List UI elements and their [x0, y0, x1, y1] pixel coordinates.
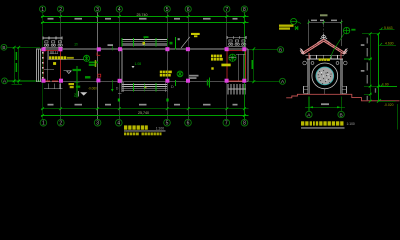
top chain tick slashes — [41, 15, 246, 24]
grey micro text at stub 3-4 — [108, 44, 114, 46]
svg-text:-0.020: -0.020 — [384, 103, 394, 107]
sparrow brace scroll right — [336, 61, 347, 65]
left vertical dimension lines — [12, 47, 23, 85]
level marker -0.020 — [378, 99, 396, 107]
long green drop line at x 77 — [76, 66, 78, 98]
bottom grid bubble 7 — [223, 119, 230, 126]
eave tip right — [343, 49, 347, 55]
right plan dim ticks — [252, 47, 255, 83]
left grid bubble A — [2, 78, 8, 84]
left axis line A — [7, 80, 40, 82]
grid axis 8 vertical green — [243, 13, 245, 120]
leader text flower beam (Y1) — [49, 56, 74, 65]
plan left end post dots — [42, 52, 44, 79]
level marker 1.00 — [379, 83, 397, 87]
svg-text:B: B — [339, 112, 342, 118]
column C bottom 8 — [242, 79, 246, 83]
column C bottom 6 — [186, 79, 190, 83]
leader text lower middle (Y4) — [160, 71, 172, 77]
small green index marks below walkway — [118, 99, 169, 102]
small dim number texts beside ticks — [361, 44, 365, 71]
bottom grid bubble 8 — [241, 119, 248, 126]
bottom grid bubble 3 — [94, 119, 101, 126]
white inner post bay 1-2 — [46, 51, 48, 82]
right dim connectors — [362, 34, 380, 94]
level marker 4.630 — [378, 41, 396, 45]
hatch light speckle — [320, 72, 330, 81]
bottom dimension chain lines — [41, 109, 249, 116]
red beam bay 7-8 bottom — [227, 80, 246, 82]
section top dimension line — [309, 21, 342, 23]
level marker in walkway (Y2) — [132, 62, 142, 68]
white landing line in wing — [44, 68, 54, 70]
walkway bottom yellow mark — [144, 86, 147, 88]
grey micro text at stub 5-6 — [178, 38, 180, 40]
stool furniture set bay 1-2 — [43, 37, 63, 48]
svg-text:D: D — [116, 86, 119, 90]
moon circle outer — [312, 63, 338, 89]
bottom chain tick slashes — [41, 107, 246, 117]
green note above triangle — [73, 69, 82, 71]
bottom grid bubble 5 — [164, 119, 171, 126]
centre walkway slat ticks top — [122, 38, 167, 47]
svg-text:25,740: 25,740 — [137, 13, 148, 17]
yellow note above column 6 — [191, 33, 200, 37]
right axis line A — [249, 80, 280, 82]
column C top 6 — [186, 47, 190, 51]
section bottom dim arrows — [309, 106, 341, 108]
grey note text right of callout — [189, 75, 199, 79]
green note row lower — [85, 76, 90, 78]
green stub mid bay 5-6 — [175, 37, 177, 49]
level marker 5.643 — [379, 26, 395, 30]
rafter posts red — [309, 53, 341, 59]
moon circle hatch disc — [316, 67, 334, 85]
svg-text:B: B — [279, 48, 282, 53]
svg-text:2: 2 — [59, 7, 62, 13]
right elevation dim vertical 1 — [369, 34, 371, 101]
column C top 8 — [242, 47, 246, 51]
svg-text:B: B — [2, 45, 5, 50]
section bubble A — [306, 111, 312, 118]
roof right rafter ticks — [328, 43, 339, 51]
plan right end edge — [247, 49, 249, 82]
left grid bubble B — [1, 44, 7, 50]
svg-text:3: 3 — [96, 7, 99, 13]
svg-text:2: 2 — [59, 121, 62, 127]
svg-text:1.00: 1.00 — [382, 83, 389, 87]
rotated green dim text near grid 3 — [95, 60, 97, 67]
grid bubble 1 — [40, 6, 46, 13]
plan left end steps — [36, 49, 40, 82]
red column tag bottom 3 — [98, 74, 101, 77]
balustrade right — [342, 86, 347, 93]
sparrow brace scroll left — [303, 61, 314, 65]
roof left rafter ticks — [309, 43, 320, 51]
red beam bay 1-2 top — [41, 50, 61, 52]
column C top 2 — [58, 47, 62, 51]
svg-text:4: 4 — [117, 121, 120, 127]
section bottom dim line — [305, 97, 345, 112]
right grid bubble A — [280, 78, 286, 84]
section top dim stems — [309, 20, 342, 26]
left axis line B — [7, 46, 40, 48]
right dim ticks — [369, 32, 380, 102]
left vertical dim micro texts — [16, 52, 18, 72]
right end interior rails — [236, 54, 246, 81]
centre walkway slat ticks bottom — [122, 83, 167, 92]
svg-text:2I: 2I — [74, 41, 77, 46]
right plan dim micro text — [252, 60, 254, 69]
section top dim micro texts — [311, 20, 337, 22]
column C bottom 3 — [96, 78, 100, 82]
green micro text right of roof callout — [351, 29, 355, 31]
bench lattice bottom bay 7-8 — [228, 84, 246, 95]
section title text — [301, 121, 355, 128]
bottom chain micro dimension texts — [48, 104, 238, 106]
section bubble B — [338, 111, 344, 118]
section bottom dim text — [321, 103, 329, 105]
top chain micro dimension texts — [48, 18, 238, 20]
column C top 4 — [118, 47, 122, 51]
detail callout circle (G2) — [229, 54, 236, 61]
right vertical dimension line of plan — [253, 49, 255, 82]
svg-text:1:100: 1:100 — [156, 126, 164, 130]
hatch speckle — [318, 70, 332, 84]
svg-text:5: 5 — [166, 121, 169, 127]
plan bottom chord line — [36, 81, 248, 83]
left bay interior lattice — [50, 51, 59, 54]
right grid bubble B — [278, 47, 284, 53]
column C bottom 1 — [42, 79, 46, 83]
svg-text:6: 6 — [187, 121, 190, 127]
svg-text:7: 7 — [225, 121, 228, 127]
leader diagonal to column 6 — [181, 37, 190, 48]
section column right — [340, 59, 342, 94]
green micro note right of G1 — [89, 62, 98, 66]
leader text pair right of centre (Y3) — [211, 55, 231, 70]
top dimension chain lines — [41, 17, 249, 23]
leader line of Y1 — [49, 59, 84, 61]
leader stem of Y1 — [48, 51, 50, 60]
svg-text:1: 1 — [41, 7, 44, 13]
left dim tick slashes — [13, 46, 20, 82]
section top dim green slashes — [308, 21, 343, 23]
balustrade left — [304, 86, 309, 93]
section side stems — [309, 25, 342, 46]
green stub above chord at mid bay 3-4 — [111, 45, 113, 91]
stool furniture set bay 7-8 — [227, 36, 246, 46]
eave tip left — [300, 49, 304, 55]
purlin beam lines — [306, 55, 344, 59]
svg-text:4.630: 4.630 — [385, 41, 394, 45]
svg-text:8: 8 — [243, 7, 246, 13]
grid bubble 6 — [185, 6, 191, 13]
red beam bay 1-2 bottom — [45, 80, 59, 82]
ridge white accents — [317, 38, 330, 42]
column C bottom 5 — [165, 79, 169, 83]
walkway top yellow mark — [143, 42, 146, 45]
grid bubble 5 — [164, 6, 170, 13]
grid bubble 4 — [116, 6, 122, 13]
plan title text — [124, 125, 166, 135]
column C bottom 4 — [118, 79, 122, 83]
svg-text:3: 3 — [96, 121, 99, 127]
svg-text:5.643: 5.643 — [384, 26, 393, 30]
detail callout circle (G3) — [177, 71, 183, 77]
open level triangle left-centre — [64, 71, 72, 74]
grid bubble 3 — [94, 6, 100, 13]
column C bottom 7 — [225, 79, 229, 83]
walkway top green note — [144, 36, 149, 38]
roof left slope — [301, 39, 324, 54]
svg-text:1:100: 1:100 — [347, 122, 355, 126]
purlin struts — [310, 55, 338, 59]
detail callout circle (G1) — [84, 55, 90, 61]
column C top 5 — [165, 47, 169, 51]
red wing frame bay 1-2 — [44, 51, 61, 82]
bench lattice bottom bay 1-2 — [44, 84, 63, 89]
column C bottom 2 — [59, 79, 63, 83]
eave yellow note — [319, 58, 330, 61]
far right stray vertical — [396, 104, 398, 130]
green micro dim near column 7 — [207, 78, 210, 88]
svg-text:8: 8 — [243, 121, 246, 127]
svg-text:4: 4 — [118, 7, 121, 13]
green mark next to it (G6) — [295, 26, 299, 30]
plan top chord line — [36, 48, 248, 50]
green stub below chord bay 5-6 — [175, 80, 177, 86]
grid bubble 8 — [241, 6, 247, 13]
roof detail callout (G4) — [343, 27, 349, 33]
section column left — [308, 59, 310, 94]
ridge finial — [320, 34, 327, 39]
svg-text:1: 1 — [42, 121, 45, 127]
svg-text:5: 5 — [166, 7, 169, 13]
svg-text:7: 7 — [225, 7, 228, 13]
grid bubble 7 — [224, 6, 230, 13]
green micro text left of walkway — [170, 42, 173, 45]
bottom grid bubble 2 — [58, 119, 65, 126]
grid axis 1 vertical green — [42, 13, 44, 120]
svg-text:-0.060: -0.060 — [88, 87, 97, 91]
svg-text:25,740: 25,740 — [138, 111, 149, 115]
red beam bay 7-8 top — [227, 49, 246, 51]
column C top 7 — [225, 47, 229, 51]
green tick crossing drop line — [75, 81, 80, 83]
column C top 1 — [42, 47, 46, 51]
floating reference text top-right of plan (Y6) — [279, 25, 294, 30]
roof right slope — [324, 39, 347, 54]
walkway side rails below chord — [118, 82, 166, 94]
svg-text:D: D — [171, 84, 174, 89]
ground steps red — [286, 94, 399, 101]
green leader from note to roof callout — [330, 33, 344, 58]
eave pink flats — [301, 52, 347, 54]
walkway end posts white — [122, 49, 167, 92]
centre walkway slats top — [122, 40, 167, 46]
grid axis verticals — [61, 13, 227, 120]
red wing frame bay 7-8 — [226, 50, 228, 81]
right dim rotated micro texts — [367, 38, 376, 101]
section centreline — [323, 25, 325, 37]
centre walkway slats bottom — [122, 85, 167, 91]
red column tag top 3 — [97, 53, 100, 56]
section centre base line — [324, 89, 326, 94]
plan right end red beam — [245, 49, 247, 82]
right elevation dim vertical 2 — [377, 34, 379, 101]
right axis line B — [249, 49, 278, 51]
section small green text above — [320, 14, 328, 16]
level annotation lower-left (Y5) — [69, 83, 98, 98]
svg-text:6: 6 — [187, 7, 190, 13]
bottom grid bubble 6 — [185, 119, 192, 126]
green arrowhead below — [111, 89, 114, 92]
section index bubble left (G5) — [291, 18, 301, 24]
bottom grid bubble 4 — [116, 119, 123, 126]
column C top 3 — [97, 47, 101, 51]
svg-text:1.08: 1.08 — [135, 62, 142, 66]
bottom grid bubble 1 — [40, 119, 47, 126]
grid bubble 2 — [58, 6, 64, 13]
